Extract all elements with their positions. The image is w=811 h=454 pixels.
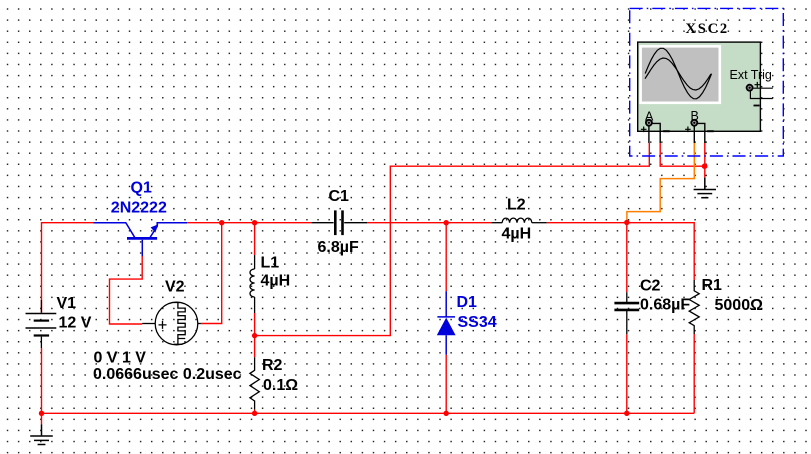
wire scope channel B plus to output node (orange) xyxy=(627,143,694,222)
wire V2 minus up to rail node xyxy=(201,223,222,324)
junction node rail-C2-orange xyxy=(624,220,629,225)
terminal B xyxy=(691,120,697,126)
pulse source V2 xyxy=(142,302,201,345)
channel B plus mark xyxy=(685,127,691,133)
wire rail node to L1 top xyxy=(254,223,256,255)
oscilloscope body xyxy=(638,42,761,131)
wire rail C1 to D1 node xyxy=(367,222,446,224)
wire C2 bottom red xyxy=(626,334,628,413)
resistor R1 xyxy=(689,280,699,334)
svg-text:D1: D1 xyxy=(457,294,478,311)
svg-text:C1: C1 xyxy=(329,188,350,205)
wire scope channel B minus down xyxy=(704,143,706,166)
svg-text:R2: R2 xyxy=(262,357,283,374)
junction node rail-D1 xyxy=(444,220,449,225)
junction node rail-V2 xyxy=(219,220,224,225)
channel A minus mark xyxy=(663,130,670,132)
ground (bottom left) xyxy=(41,413,43,424)
junction node bottom-C2 xyxy=(624,411,629,416)
svg-text:V1: V1 xyxy=(57,295,77,312)
pin stub channel B plus xyxy=(693,126,695,143)
inductor L2 xyxy=(491,218,547,223)
wire bottom rail xyxy=(42,412,695,414)
wire rail from Q1 emitter to C1 xyxy=(187,222,311,224)
wire V1 bottom xyxy=(41,348,43,413)
svg-text:0.1Ω: 0.1Ω xyxy=(263,377,298,394)
wire D1 bottom red xyxy=(445,355,447,414)
junction node bottom-V1 xyxy=(39,411,44,416)
resistor R2 xyxy=(250,357,259,409)
junction node bottom-R2 xyxy=(252,411,257,416)
svg-text:5000Ω: 5000Ω xyxy=(715,297,764,314)
oscilloscope screen xyxy=(641,46,720,103)
svg-text:4µH: 4µH xyxy=(502,226,532,243)
svg-text:R1: R1 xyxy=(702,277,723,294)
channel B minus mark xyxy=(707,130,714,132)
svg-text:2N2222: 2N2222 xyxy=(111,199,167,216)
wire R2 bottom to bottom rail xyxy=(254,410,256,414)
wire V1 top to rail corner xyxy=(42,223,94,313)
ext trig minus mark xyxy=(754,105,760,107)
wire Q1 base to V2 plus xyxy=(110,256,143,324)
svg-text:4µH: 4µH xyxy=(261,273,291,290)
channel A plus mark xyxy=(641,127,647,133)
wire D1 top red xyxy=(445,223,447,292)
wire mid node to scope channel A plus xyxy=(255,143,650,336)
terminal A xyxy=(646,120,652,126)
scope trace channel B xyxy=(645,58,711,90)
pin stub channel A plus xyxy=(648,126,650,143)
inductor L1 xyxy=(250,255,255,313)
pin stub channel A minus xyxy=(652,123,660,143)
junction node scope ground xyxy=(702,163,708,169)
svg-text:12 V: 12 V xyxy=(59,315,92,332)
scope trace channel A xyxy=(645,48,711,99)
wire R1 bottom to bottom rail xyxy=(693,334,695,413)
wire rail L2 to C2 node xyxy=(547,222,627,224)
battery V1 xyxy=(26,300,57,348)
wire mid node to R2 top xyxy=(254,336,256,358)
svg-text:0.68µF: 0.68µF xyxy=(640,297,690,314)
svg-text:V2: V2 xyxy=(165,279,185,296)
ext trig pin lines xyxy=(750,88,772,98)
wire rail C2 node to R1 top xyxy=(627,223,694,280)
oscilloscope XSC2 dashed selection box xyxy=(630,8,784,156)
wire C2 top red xyxy=(626,223,628,293)
svg-text:Ext Trig: Ext Trig xyxy=(730,68,772,82)
capacitor C2 xyxy=(614,292,639,334)
svg-text:6.8µF: 6.8µF xyxy=(318,239,359,256)
junction node bottom-D1 xyxy=(444,411,449,416)
wire ground node down xyxy=(704,166,706,177)
svg-text:0 V 1 V: 0 V 1 V xyxy=(94,350,147,367)
svg-text:L1: L1 xyxy=(261,255,280,272)
pin stub channel B minus xyxy=(697,123,705,143)
ground (scope) xyxy=(694,178,716,198)
diode D1 xyxy=(437,291,455,355)
wire scope channel A minus to ground node xyxy=(660,143,705,166)
svg-text:0.0666usec 0.2usec: 0.0666usec 0.2usec xyxy=(93,366,242,383)
wire L1 bottom to mid node xyxy=(254,313,256,336)
svg-text:XSC2: XSC2 xyxy=(686,21,729,37)
wire rail D1 node to L2 xyxy=(446,222,491,224)
svg-text:SS34: SS34 xyxy=(458,314,497,331)
ext trig terminal xyxy=(747,85,753,91)
junction node L1-R2-scope xyxy=(252,333,257,338)
ext trig plus mark xyxy=(755,82,761,88)
capacitor C1 xyxy=(312,210,368,235)
svg-text:C2: C2 xyxy=(640,278,661,295)
transistor Q1 xyxy=(93,223,187,257)
svg-text:L2: L2 xyxy=(507,197,526,214)
svg-text:Q1: Q1 xyxy=(131,180,152,197)
junction node rail-L1 xyxy=(252,220,257,225)
